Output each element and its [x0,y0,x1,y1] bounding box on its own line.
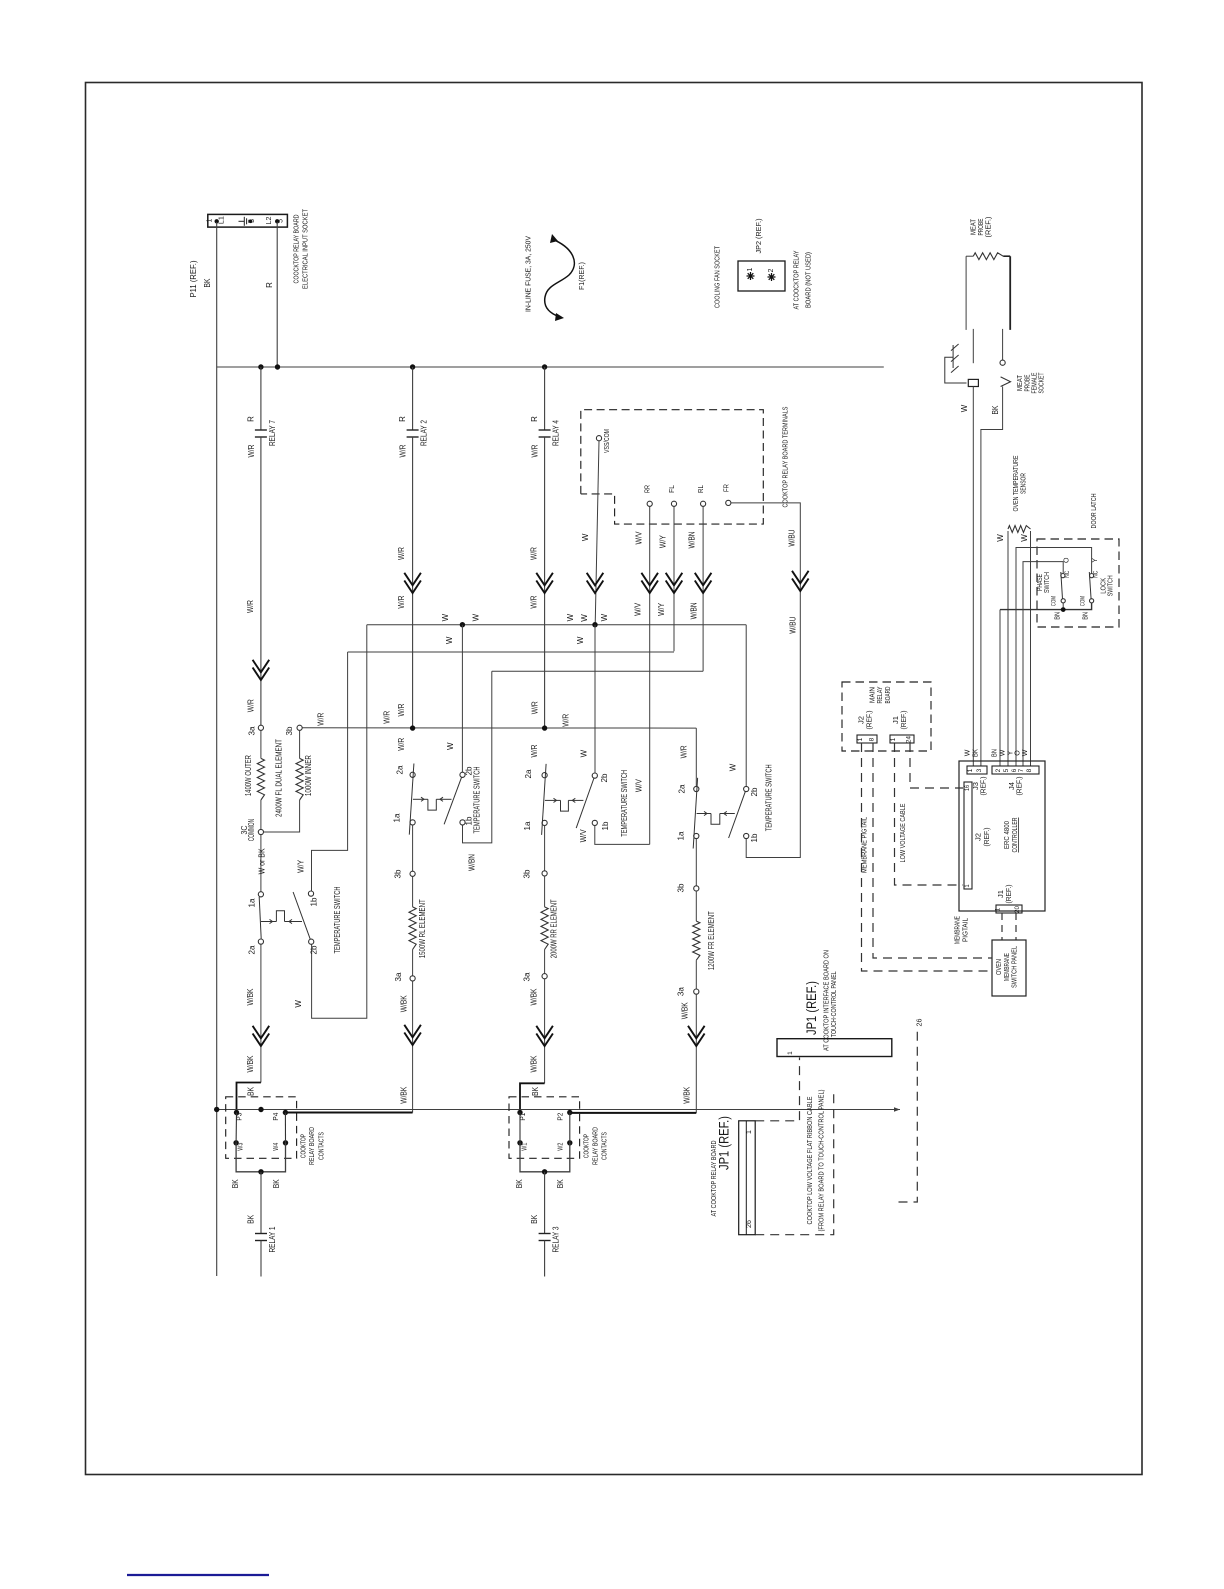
wire W/BK circuit1 down [260,944,262,1082]
svg-text:BK: BK [515,1179,524,1189]
svg-text:BK: BK [531,1086,540,1096]
junction dot W/R at circuit2 [410,725,415,730]
svg-text:R: R [246,416,255,422]
svg-text:W/R: W/R [397,738,406,751]
wire W/R down to circuit4 [695,728,697,786]
chevron W/BN [695,573,712,586]
svg-text:L1: L1 [218,216,225,224]
svg-text:TEMPERATURE SWITCH: TEMPERATURE SWITCH [620,770,629,837]
connector J4 (REF.) [992,766,1039,774]
svg-text:3b: 3b [677,883,686,893]
wire W sensor right down [1030,531,1032,766]
connector JP1 at cooktop relay board 26 pin [739,1121,756,1235]
junction dot BN at phase switch [1061,607,1066,612]
svg-text:W/R: W/R [382,711,391,724]
svg-text:(REF.): (REF.) [1006,885,1013,904]
svg-text:P2: P2 [556,1113,565,1121]
cooktop relay board contacts dashed box P3/P4 [226,1097,297,1159]
svg-text:Y: Y [1008,750,1015,755]
svg-text:ELECTRICAL INPUT SOCKET: ELECTRICAL INPUT SOCKET [301,209,310,289]
svg-text:W: W [566,613,575,621]
pin L1 dot [215,219,219,223]
svg-text:W: W [581,533,590,541]
svg-text:(REF.): (REF.) [984,828,991,847]
resistor 1500W RL ELEMENT [412,876,414,907]
svg-text:SWITCH PANEL: SWITCH PANEL [1010,946,1019,988]
svg-text:W/BK: W/BK [246,988,255,1006]
actuator link circuit3 [545,799,561,801]
svg-text:R: R [398,416,407,422]
chevron W/BK circuit2 [404,1025,421,1038]
svg-text:W/Y: W/Y [297,859,306,873]
svg-text:1: 1 [746,1130,753,1134]
JP2 pin 2 star [768,276,776,278]
wire circuit2 1a to 3b [412,825,414,871]
switch lever b circuit2 [444,777,462,824]
svg-text:W/BU: W/BU [788,529,797,546]
connector J1 (REF.) main relay board [890,735,914,743]
ERC 4800 controller box [959,761,1045,911]
switch lever b circuit1 [293,892,310,939]
wire Y from lock NC [1016,548,1092,767]
svg-text:BOARD: BOARD [883,686,892,703]
wire BK from probe socket [981,387,1003,767]
contact arm b [569,1113,571,1143]
wire W/Y from FL down [673,506,675,651]
svg-text:6: 6 [1011,768,1018,772]
terminal FR [726,500,731,505]
relay coil RELAY 1 [260,1172,262,1234]
svg-text:RELAY 4: RELAY 4 [552,420,561,446]
lock switch [1090,599,1094,603]
svg-text:RELAY 3: RELAY 3 [552,1226,561,1252]
svg-text:1b: 1b [310,897,319,907]
svg-text:W: W [576,636,585,644]
svg-text:1: 1 [787,1051,794,1055]
svg-text:BN: BN [992,749,999,757]
svg-text:W/BK: W/BK [681,1002,690,1020]
svg-text:W/R: W/R [397,703,406,716]
svg-text:BN: BN [1083,612,1090,620]
svg-text:2400W FL DUAL ELEMENT: 2400W FL DUAL ELEMENT [275,739,284,817]
svg-text:W/R: W/R [397,595,406,608]
contact W1 [517,1140,522,1145]
oven membrane switch panel box [992,940,1026,996]
wire W or BK 3C common to switch [260,835,262,892]
contact W3 [233,1140,238,1145]
actuator link circuit2 [413,798,428,800]
connector J1 (REF.) erc [996,905,1022,913]
svg-text:W/R: W/R [531,444,540,457]
pin 5 dot [275,219,279,223]
main relay board dashed box [842,682,931,751]
contact W2 [567,1140,572,1145]
svg-text:3b: 3b [394,869,403,879]
resistor 2000W RR ELEMENT [544,876,546,907]
svg-text:VSS/COM: VSS/COM [602,429,611,453]
svg-text:RELAY 2: RELAY 2 [420,420,429,446]
wire W/BK circuit3 down [544,979,546,1084]
chevron W/R circuit1 [253,660,270,673]
wire W/BK circuit4 down [695,994,697,1113]
svg-text:3a: 3a [523,972,532,982]
low voltage cable dashed paths [895,743,964,885]
svg-text:R: R [265,282,274,288]
svg-text:CONTROLLER: CONTROLLER [1010,817,1019,852]
svg-text:RL: RL [696,485,705,493]
svg-text:J1: J1 [893,716,900,724]
svg-text:1: 1 [206,218,213,222]
svg-text:W: W [445,636,454,644]
svg-text:NC: NC [1092,571,1099,578]
svg-text:1: 1 [857,737,864,741]
svg-text:W: W [441,613,450,621]
svg-text:2a: 2a [396,765,405,775]
svg-text:BK: BK [203,278,212,288]
wire BK jog to P1 [520,1083,545,1110]
svg-text:TEMPERATURE SWITCH: TEMPERATURE SWITCH [472,766,481,833]
svg-text:COOKTOP RELAY BOARD TERMINALS: COOKTOP RELAY BOARD TERMINALS [781,407,790,508]
contact arm b [284,1113,286,1143]
svg-text:1: 1 [995,907,1002,911]
svg-text:JP1 (REF.): JP1 (REF.) [717,1116,732,1170]
svg-text:W/R: W/R [397,547,406,560]
resistor 1000W INNER element [299,730,301,758]
junction dot relay4 branch [542,364,547,369]
svg-text:FL: FL [667,485,676,493]
ground symbol pin 3 [239,220,245,222]
meat probe lead left [965,256,967,330]
contact P3 [234,1110,239,1115]
svg-text:W/BK: W/BK [399,995,408,1013]
contact P1 [517,1110,522,1115]
wire W/Y line B [348,651,674,653]
svg-text:W/R: W/R [530,547,539,560]
switch lever a circuit1 [259,897,261,939]
svg-text:W1: W1 [519,1143,528,1151]
wire W sensor left down [1007,531,1009,766]
terminal 3b circuit2 [410,871,415,876]
svg-text:J4: J4 [1009,782,1016,790]
svg-text:3: 3 [976,768,983,772]
resistor 1400W OUTER element [260,730,262,758]
junction dot join [258,1169,263,1174]
svg-text:F1(REF.): F1(REF.) [577,262,586,290]
contact W4 [283,1140,288,1145]
svg-text:(REF.): (REF.) [901,711,908,730]
svg-text:JP2 (REF.): JP2 (REF.) [754,218,763,253]
svg-text:26: 26 [915,1019,924,1027]
svg-text:W/BN: W/BN [468,854,477,871]
svg-text:LOW VOLTAGE CABLE: LOW VOLTAGE CABLE [898,804,907,863]
membrane pigtail dashed J1 to panel [1001,913,1003,940]
svg-text:2b: 2b [750,787,759,797]
svg-text:MEMBRANE PIGTAIL: MEMBRANE PIGTAIL [860,817,869,873]
svg-text:W/BK: W/BK [399,1086,408,1104]
wire W bus line A [367,624,746,626]
JP2 pin 1 star [747,275,755,277]
terminal 3a circuit3 [544,950,546,974]
svg-text:2: 2 [995,768,1002,772]
terminal 3a circuit4 [695,960,697,989]
terminal 3b circuit3 [542,871,547,876]
svg-text:W: W [294,1000,303,1008]
chevron W/V [641,573,658,586]
svg-text:W/R: W/R [531,701,540,714]
svg-text:J3: J3 [973,782,980,790]
svg-text:3b: 3b [523,869,532,879]
wire BK contacts join [236,1143,285,1172]
svg-text:(FROM RELAY BOARD TO TOUCH-CON: (FROM RELAY BOARD TO TOUCH-CONTROL PANEL… [817,1089,826,1231]
svg-text:1200W FR ELEMENT: 1200W FR ELEMENT [707,911,716,970]
svg-text:20: 20 [1014,906,1021,913]
svg-text:W or BK: W or BK [258,848,267,875]
wire BK thin bottom bus [217,1109,900,1111]
svg-text:W/R: W/R [561,714,570,727]
svg-text:3a: 3a [248,726,257,736]
svg-text:2a: 2a [524,769,533,779]
svg-text:2b: 2b [600,773,609,783]
resistor 1200W FR ELEMENT [695,891,697,921]
terminal VSS/COM [596,436,601,441]
meat probe socket pin right with terminal [1002,329,1004,360]
membrane pigtail dashed paths [862,743,993,971]
svg-text:W: W [600,613,609,621]
svg-text:W: W [996,534,1005,542]
svg-text:W/V: W/V [579,829,588,843]
svg-text:(REF.): (REF.) [867,711,874,730]
relay coil RELAY 4 [544,367,546,430]
meat probe socket body [968,379,978,386]
wire W down to circuit4 2b [745,625,747,787]
svg-text:W/Y: W/Y [658,535,667,549]
svg-text:COM: COM [1051,596,1058,606]
svg-text:FR: FR [721,484,730,492]
temperature switch circuit1 [258,892,263,897]
connector J2 (REF.) erc [964,782,972,889]
wire O from phase NC [1023,562,1063,766]
door latch dashed box [1037,539,1119,627]
svg-text:W/R: W/R [247,699,256,712]
svg-text:W/R: W/R [530,595,539,608]
svg-text:1: 1 [747,267,754,271]
svg-text:W/BK: W/BK [530,1055,539,1073]
svg-text:W/R: W/R [530,744,539,757]
svg-text:RELAY 1: RELAY 1 [268,1226,277,1252]
terminal 3b circuit1 [297,725,302,730]
svg-text:PIGTAIL: PIGTAIL [961,918,970,942]
svg-text:W/V: W/V [634,602,643,616]
wire W/V from RR down [649,506,651,844]
svg-text:1a: 1a [392,813,401,823]
fuse F1 in-line fuse 3A 250V [545,239,575,317]
svg-text:2b: 2b [310,945,319,955]
switch lever a circuit4 [693,778,697,849]
svg-text:W: W [1022,749,1029,756]
svg-text:3a: 3a [394,972,403,982]
wire W/R relay4 down [544,437,546,728]
svg-text:W4: W4 [271,1143,280,1151]
svg-text:W/BN: W/BN [688,531,697,548]
svg-text:W/R: W/R [316,713,325,726]
svg-text:SWITCH: SWITCH [1106,575,1115,596]
svg-text:CONTACTS: CONTACTS [316,1132,325,1160]
svg-text:W: W [1020,534,1029,542]
switch lever a circuit3 [542,764,547,835]
svg-text:2a: 2a [678,784,687,794]
junction dot relay7 branch [258,364,263,369]
svg-text:O: O [1063,557,1070,563]
svg-text:COMMON: COMMON [247,819,256,841]
svg-text:RR: RR [643,485,652,493]
svg-text:W: W [580,749,589,757]
svg-text:IN-LINE FUSE, 3A, 250V: IN-LINE FUSE, 3A, 250V [524,236,533,312]
connector P11 cooktop relay board electrical input socket [208,214,288,227]
wire W drop to circuit2 2b [461,625,463,773]
wire W from VSS/COM down [595,441,599,625]
svg-text:1a: 1a [677,831,686,841]
svg-text:P11 (REF.): P11 (REF.) [189,260,198,297]
wire W/V from circuit3 1b [595,826,650,845]
svg-text:NC: NC [1064,571,1071,578]
terminal 3a circuit2 [412,950,414,976]
wire inner element to 3C common [264,800,300,832]
svg-text:BK: BK [246,1086,255,1096]
wire BK jog to P3 [237,1083,261,1111]
svg-text:COOKTOP LOW VOLTAGE FLAT RIBBO: COOKTOP LOW VOLTAGE FLAT RIBBON CABLE [805,1097,814,1225]
cooktop relay board terminals dashed box [581,410,764,524]
connector J2 (REF.) main relay board [857,735,877,743]
contact P4 [283,1110,288,1115]
switch lever b circuit3 [576,778,594,828]
svg-text:BN: BN [1054,612,1061,620]
wire to 3C common [260,800,262,829]
page border frame [86,83,1143,1475]
svg-text:COM: COM [1080,596,1087,606]
wire circuit4 1a to 3b [695,839,697,886]
relay coil RELAY 3 [544,1172,546,1234]
svg-text:CONTACTS: CONTACTS [600,1132,609,1160]
svg-text:1b: 1b [750,833,759,843]
svg-text:W: W [729,763,738,771]
svg-text:W/BK: W/BK [683,1086,692,1104]
svg-text:(REF.): (REF.) [1017,777,1024,796]
svg-text:W: W [965,749,972,756]
svg-text:W/V: W/V [635,531,644,545]
wire BN down to J4-2 [999,610,1001,766]
svg-text:(REF.): (REF.) [984,216,993,237]
svg-text:24: 24 [906,736,913,743]
heavy wire P4 to circuit2 [285,1112,412,1114]
chevron W/R circuit3 [536,573,553,586]
svg-text:1400W OUTER: 1400W OUTER [244,755,253,796]
wire W/BU from FR right and down [731,503,800,858]
cooktop relay board contacts dashed box P1/P2 [509,1097,580,1159]
chevron W vss [587,573,604,586]
svg-text:SOCKET: SOCKET [1037,372,1046,393]
svg-text:W/BK: W/BK [246,1055,255,1073]
svg-text:1000W INNER: 1000W INNER [304,755,313,796]
meat probe socket pin left [972,329,974,363]
actuator link circuit1 [261,921,276,923]
svg-text:BK: BK [991,405,1000,415]
svg-text:5: 5 [278,219,285,223]
svg-text:P4: P4 [271,1113,280,1121]
svg-text:J2: J2 [859,716,866,724]
svg-text:1a: 1a [523,821,532,831]
svg-text:RELAY BOARD: RELAY BOARD [307,1127,316,1165]
svg-text:TOUCH-CONTROL PANEL: TOUCH-CONTROL PANEL [829,971,838,1037]
wire W/BN from RL down [702,506,704,671]
svg-text:16: 16 [965,784,971,791]
contact arm a [519,1113,521,1143]
temperature switch circuit3 terminals [542,773,547,778]
wire W/BN line C [492,670,703,672]
relay coil RELAY 2 [412,367,414,430]
svg-text:W/BN: W/BN [690,602,699,619]
svg-text:2a: 2a [248,945,257,955]
wire W/BN drop to circuit2 1b [463,671,492,843]
phase switch [1061,599,1065,603]
svg-text:SENSOR: SENSOR [1019,473,1028,494]
junction dot L2 wire [275,364,280,369]
junction dot W line at circuit2 drop [460,622,465,627]
ribbon cable dashed pin1 path [755,1058,799,1121]
svg-text:BK: BK [556,1179,565,1189]
svg-text:W: W [960,404,969,412]
svg-text:W/Y: W/Y [657,602,666,616]
svg-text:3b: 3b [285,726,294,736]
chevron W/R circuit2 [404,573,421,586]
junction dot relay2 branch [410,364,415,369]
svg-text:1a: 1a [248,898,257,908]
svg-text:BK: BK [247,1214,256,1224]
chevron W/BU [792,571,809,584]
svg-text:BK: BK [530,1214,539,1224]
svg-text:5: 5 [1003,768,1010,772]
svg-text:26: 26 [746,1220,753,1228]
svg-text:BOARD (NOT USED): BOARD (NOT USED) [804,252,813,308]
terminal RL [701,501,706,506]
connector JP1 at cooktop interface board [777,1039,892,1057]
switch lever a circuit2 [409,764,414,835]
temperature switch circuit4 terminals [694,786,699,791]
svg-text:AT COOCKTOP RELAY: AT COOCKTOP RELAY [792,251,801,310]
svg-text:3a: 3a [677,987,686,997]
svg-text:1: 1 [967,768,974,772]
wire W/R relay7 down to 3a [260,437,262,725]
svg-text:TEMPERATURE SWITCH: TEMPERATURE SWITCH [333,886,342,953]
temperature switch circuit2 terminals [410,772,415,777]
svg-text:SWITCH: SWITCH [1042,572,1051,593]
svg-text:J2: J2 [976,833,983,841]
svg-text:Y: Y [1092,558,1099,563]
wire BK contacts join [520,1143,570,1172]
svg-text:W/R: W/R [399,444,408,457]
wire W from probe socket [972,387,974,767]
resistor oven temperature sensor [1008,526,1031,533]
svg-text:W: W [446,742,455,750]
svg-text:TEMPERATURE SWITCH: TEMPERATURE SWITCH [765,764,774,831]
terminal RR [647,501,652,506]
terminal FL [671,501,676,506]
svg-text:RELAY BOARD: RELAY BOARD [590,1127,599,1165]
connector JP2 (REF.) box [738,261,785,291]
svg-text:W/R: W/R [247,444,256,457]
svg-text:W/BU: W/BU [789,617,798,634]
contact arm a [235,1113,237,1143]
svg-text:W/BK: W/BK [530,988,539,1006]
